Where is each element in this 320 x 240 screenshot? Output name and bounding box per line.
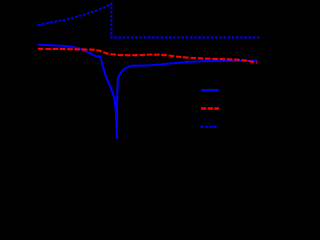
legend key: blue solid line (201, 89, 219, 91)
impedance curve (blue solid) with resonance notch (38, 45, 258, 139)
legend key: blue dashed line (200, 126, 216, 128)
legend key: red dashed line (201, 107, 219, 110)
ESR curve (red dashed) (38, 49, 257, 63)
phase curve (blue dashed): rising branch, vertical drop, flat tail (38, 4, 261, 38)
